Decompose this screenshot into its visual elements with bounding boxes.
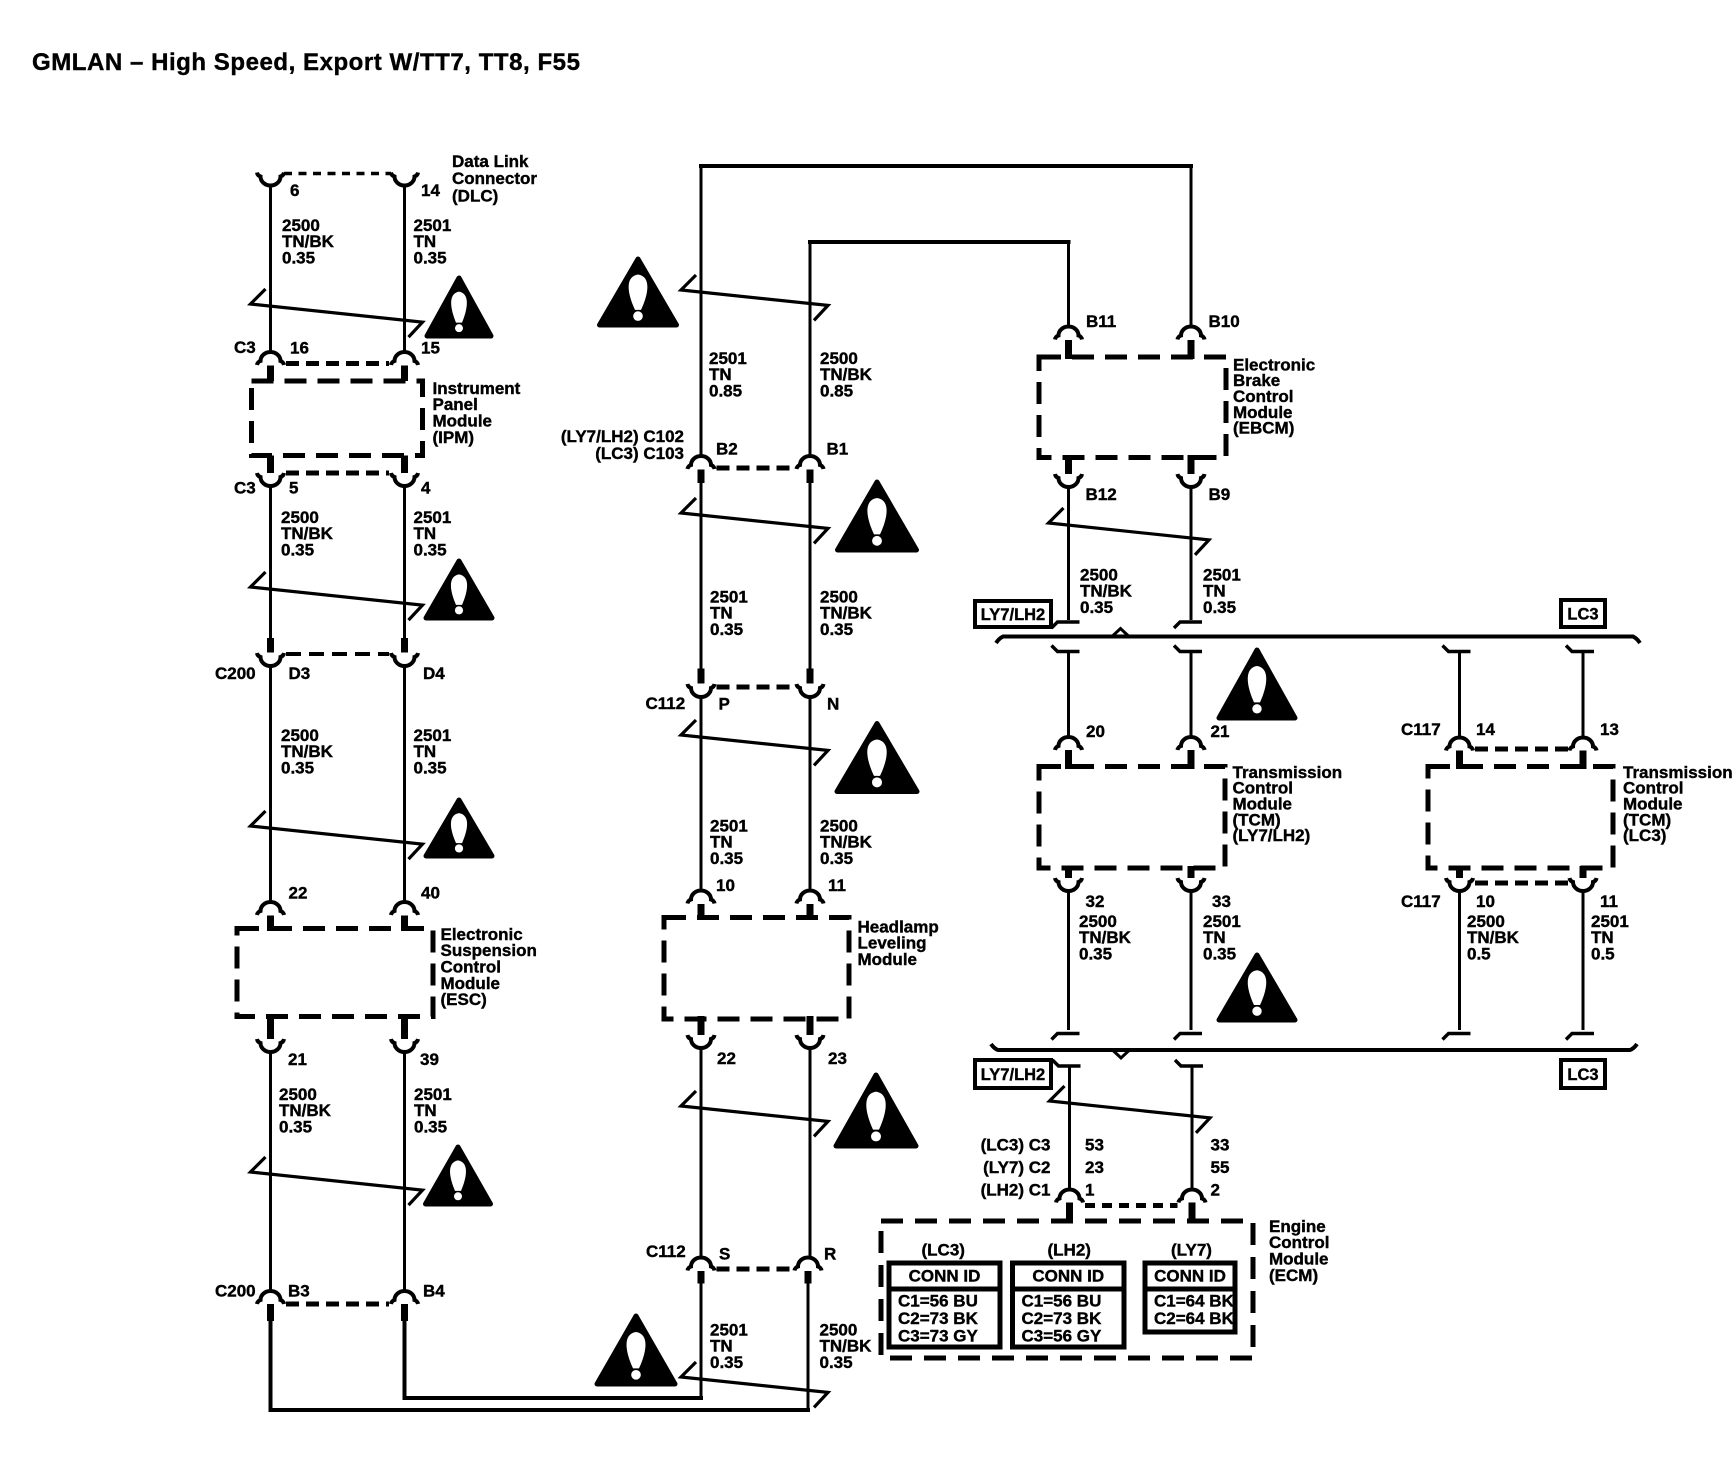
pin stub C112 S [698, 1271, 705, 1284]
pin stub C117-14 [1456, 751, 1463, 770]
module box Headlamp Leveling Module [664, 918, 849, 1020]
pin stub TCM-LC3 pin 11 [1580, 866, 1587, 878]
wire segment bus to TCM pin 21 [1190, 653, 1193, 738]
pin stub C117-13 [1580, 751, 1587, 770]
bus bracket 2 line [991, 1044, 1637, 1050]
connector TCM pin 21 terminal [1178, 737, 1205, 750]
svg-text:11: 11 [1600, 892, 1618, 911]
wire 2501 TN segment B9 to bus [1190, 486, 1193, 620]
warning triangle note 5 [600, 259, 677, 325]
twisted pair symbol bus2 to ECM [1050, 1086, 1211, 1133]
connector ECM pin 2 terminal [1179, 1190, 1206, 1203]
module box Transmission Control Module (TCM) (LC3) [1428, 767, 1613, 869]
wire segment TCM-32 to bus2 [1067, 890, 1070, 1030]
wire 2500 TN/BK top horizontal run to EBCM B11 [808, 240, 1071, 244]
pin stub C3-15 into IPM [401, 366, 408, 382]
svg-text:13: 13 [1600, 720, 1619, 739]
table CONN ID (LY7) [1145, 1263, 1235, 1332]
twisted pair symbol IPM to C200 [251, 572, 423, 620]
wire 2500 TN/BK top vertical at x810 [809, 240, 812, 457]
connector C102/C103 pin B1 terminal [797, 456, 824, 469]
connector C200 body dashed line [286, 652, 389, 656]
svg-text:LC3: LC3 [1567, 1066, 1598, 1084]
svg-text:R: R [824, 1244, 836, 1263]
connector C3 lower body dashed line [286, 471, 389, 476]
svg-text:16: 16 [290, 338, 309, 357]
svg-text:D4: D4 [423, 664, 445, 683]
pin stub ESC pin 39 [401, 1014, 408, 1039]
connector C200 lower body dashed line [286, 1302, 389, 1307]
warning triangle note 1 [427, 278, 491, 336]
module box Engine Control Module (ECM) [881, 1221, 1253, 1358]
svg-text:C1=56 BU: C1=56 BU [1022, 1292, 1102, 1311]
wire segment bus to C117 pin 14 [1458, 653, 1461, 739]
connector EBCM pin B11 terminal [1055, 327, 1082, 340]
pin stub EBCM-B11 [1065, 340, 1072, 359]
connector C112 lower body dashed line [717, 1267, 794, 1272]
connector ECM pin 1 terminal [1056, 1190, 1083, 1203]
connector C117 upper body dashed line [1475, 747, 1569, 752]
wire start hook TCM-21 below bus [1174, 646, 1202, 652]
connector C3 pin 4 terminal [391, 473, 418, 486]
wire 2500 TN/BK rise to C112 R [807, 1284, 810, 1411]
svg-text:20: 20 [1086, 722, 1105, 741]
svg-text:LC3: LC3 [1567, 606, 1598, 624]
wire 2501 TN segment ESC to C200 B4 [403, 1051, 406, 1292]
table CONN ID (LH2) [1013, 1263, 1125, 1347]
twisted pair symbol middle top [681, 275, 828, 320]
wire 2500 TN/BK segment IPM to C200 D3 [269, 485, 272, 639]
wire start hook C117-14 below bus [1443, 646, 1471, 652]
pin stub HLM-10 [698, 904, 705, 920]
svg-text:C3: C3 [234, 338, 256, 357]
connector HLM pin 23 terminal [797, 1035, 824, 1048]
connector C200 pin B4 terminal [391, 1291, 418, 1304]
svg-text:32: 32 [1086, 892, 1105, 911]
pin stub TCM-20 [1065, 750, 1072, 769]
connector C112 pin S terminal [688, 1258, 715, 1271]
pin stub TCM-LC3 pin 10 [1456, 866, 1463, 878]
connector TCM pin 20 terminal [1055, 737, 1082, 750]
pin stub IPM pin 5 [267, 456, 274, 474]
svg-text:CONN ID: CONN ID [909, 1267, 981, 1286]
table CONN ID (LC3) [889, 1263, 1000, 1347]
connector EBCM pin B10 terminal [1178, 327, 1205, 340]
wire end hook B12 at bus [1052, 622, 1080, 628]
svg-text:CONN ID: CONN ID [1154, 1267, 1226, 1286]
wire 2501 TN segment DLC pin 14 to C3 pin 15 [403, 184, 406, 353]
pin stub C112 P male [698, 669, 705, 684]
connector C102/C103 body dashed line [717, 466, 796, 471]
svg-text:P: P [719, 694, 730, 713]
svg-text:(LC3): (LC3) [922, 1240, 965, 1259]
pin stub B2 [698, 470, 705, 484]
svg-text:40: 40 [421, 883, 440, 902]
wire 2500 TN/BK segment C112 to HLM pin 11 [809, 697, 812, 893]
connector C3 pin 16 terminal [257, 352, 284, 365]
twisted pair symbol B2/B1 to C112 [681, 498, 828, 543]
connector C112 pin N terminal [797, 684, 824, 697]
svg-text:B4: B4 [423, 1281, 445, 1300]
pin stub EBCM pin B9 [1188, 455, 1195, 474]
pin stub C112 N male [807, 669, 814, 684]
svg-text:6: 6 [290, 181, 299, 200]
twisted pair symbol C112 to HLM [681, 720, 828, 765]
bus bracket 1 caret [1112, 629, 1129, 637]
wire 2501 TN vertical segment B4 down [403, 1321, 407, 1398]
pin stub HLM pin 22 [698, 1016, 705, 1035]
svg-text:C117: C117 [1401, 892, 1441, 911]
svg-text:10: 10 [1476, 892, 1495, 911]
connector DLC body dashed line [284, 172, 391, 176]
connector EBCM pin B12 terminal [1055, 474, 1082, 487]
connector C200 pin D3 terminal [257, 653, 284, 666]
connector HLM pin 11 terminal [797, 891, 824, 904]
warning triangle note 11 [1219, 955, 1295, 1020]
svg-text:(LY7): (LY7) [1171, 1240, 1212, 1259]
connector C112 pin R terminal [795, 1258, 822, 1271]
pin stub C200 B4 [401, 1304, 408, 1321]
wire 2501 TN segment IPM to C200 D4 [403, 485, 406, 639]
connector C112 pin P terminal [688, 684, 715, 697]
warning triangle note 2 [426, 561, 492, 618]
svg-text:C1=56 BU: C1=56 BU [898, 1292, 978, 1311]
svg-text:N: N [827, 694, 839, 713]
wire 2501 TN rise to C112 S [700, 1284, 703, 1399]
module box Instrument Panel Module (IPM) [252, 381, 423, 456]
pin stub ESC-22 [267, 916, 274, 932]
pin stub ESC-40 [401, 916, 408, 932]
module box Electronic Brake Control Module (EBCM) [1039, 357, 1226, 458]
pin stub HLM pin 23 [807, 1016, 814, 1035]
connector C3 pin 15 terminal [391, 352, 418, 365]
warning triangle note 4 [426, 1147, 491, 1204]
connector TCM pin 32 terminal [1055, 878, 1082, 891]
wire 2501 TN top vertical at x701 [700, 164, 703, 457]
svg-text:B9: B9 [1209, 485, 1231, 504]
svg-text:C3=56 GY: C3=56 GY [1022, 1327, 1103, 1346]
wire 2500 TN/BK drop to EBCM B11 [1067, 242, 1070, 328]
connector C117 pin 13 terminal [1570, 738, 1597, 751]
wire 2500 TN/BK segment C200 to ESC pin 22 [269, 665, 272, 904]
connector C3 body dashed line [286, 361, 389, 366]
pin stub ECM-1 [1066, 1203, 1073, 1224]
wire 2501 TN segment HLM to C112 S [700, 1047, 703, 1259]
wire 2501 TN bottom horizontal run to C112 S [403, 1396, 704, 1400]
svg-text:B11: B11 [1086, 312, 1116, 331]
svg-text:CONN ID: CONN ID [1032, 1267, 1104, 1286]
svg-text:(LC3) C3(LY7) C2(LH2) C1: (LC3) C3(LY7) C2(LH2) C1 [981, 1135, 1051, 1199]
connector TCM pin 33 terminal [1178, 878, 1205, 891]
twisted pair symbol C200 to ESC [251, 811, 423, 859]
svg-text:GMLAN – High Speed, Export W/T: GMLAN – High Speed, Export W/TT7, TT8, F… [32, 49, 580, 76]
svg-text:11: 11 [828, 876, 846, 895]
connector C112 body dashed line [717, 685, 796, 690]
wire segment TCM-33 to bus2 [1190, 890, 1193, 1030]
twisted pair symbol ESC to C200 [251, 1157, 423, 1205]
warning triangle note 6 [838, 482, 917, 550]
module box Electronic Suspension Control Module (ESC) [237, 929, 433, 1017]
pin stub ECM-2 [1189, 1203, 1196, 1224]
wire start hook TCM-20 below bus [1052, 646, 1080, 652]
connector C3 pin 5 terminal [257, 473, 284, 486]
wire segment bus to C117 pin 13 [1582, 653, 1585, 739]
net tag LC3 lower [1561, 1060, 1605, 1088]
svg-text:LY7/LH2: LY7/LH2 [981, 606, 1046, 624]
wire 2500 TN/BK bottom horizontal run to C112 R [269, 1408, 811, 1412]
wire 2501 TN segment C112 to HLM pin 10 [700, 697, 703, 893]
module box Transmission Control Module (TCM) (LY7/LH2) [1039, 767, 1225, 869]
svg-text:C117: C117 [1401, 720, 1441, 739]
wire 2501 TN segment B2 to C112 P [700, 483, 703, 669]
twisted pair symbol EBCM to bus [1049, 508, 1210, 555]
svg-text:B2: B2 [716, 439, 738, 458]
connector ESC pin 40 terminal [391, 902, 418, 915]
connector DLC pin 14 terminal [391, 173, 418, 186]
twisted pair symbol bottom run [681, 1362, 828, 1407]
connector C117 pin 10 terminal [1446, 878, 1473, 891]
wire 2501 TN top horizontal run to EBCM B10 [699, 164, 1193, 168]
connector C117 pin 11 terminal [1570, 878, 1597, 891]
wire 2500 TN/BK segment ESC to C200 B3 [269, 1051, 272, 1292]
svg-text:C1=64 BK: C1=64 BK [1154, 1292, 1235, 1311]
pin stub EBCM pin B12 [1065, 455, 1072, 474]
pin stub C3-16 into IPM [267, 366, 274, 382]
svg-text:B1: B1 [827, 439, 849, 458]
svg-text:C200: C200 [215, 1281, 256, 1300]
wire 2501 TN drop to EBCM B10 [1190, 166, 1193, 328]
connector C200 pin B3 terminal [257, 1291, 284, 1304]
wire segment C117-11 to bus2 [1582, 890, 1585, 1030]
svg-text:10: 10 [716, 876, 735, 895]
pin stub C112 R [805, 1271, 812, 1284]
wire 2500 TN/BK vertical segment B3 down [269, 1321, 273, 1410]
connector ESC pin 39 terminal [391, 1039, 418, 1052]
net tag LY7/LH2 upper [975, 601, 1051, 627]
svg-text:15: 15 [421, 338, 440, 357]
warning triangle note 8 [836, 1075, 916, 1146]
svg-text:D3: D3 [289, 664, 311, 683]
connector C117 pin 14 terminal [1446, 738, 1473, 751]
pin stub TCM pin 32 [1065, 866, 1072, 878]
wire start hook ECM left below bus2 [1053, 1060, 1081, 1066]
connector C102/C103 pin B2 terminal [688, 456, 715, 469]
wire 2500 TN/BK segment B12 to bus [1067, 486, 1070, 620]
wire segment bus to TCM pin 20 [1067, 653, 1070, 738]
wire end hook TCM-33 at bus2 [1174, 1034, 1202, 1040]
warning triangle note 10 [1219, 650, 1295, 718]
svg-text:C3=73 GY: C3=73 GY [898, 1327, 979, 1346]
svg-text:B3: B3 [288, 1281, 310, 1300]
svg-text:14: 14 [421, 181, 440, 200]
connector DLC pin 6 terminal [257, 173, 284, 186]
svg-text:C2=64 BK: C2=64 BK [1154, 1309, 1235, 1328]
svg-text:21: 21 [288, 1050, 307, 1069]
wire segment bus2 to ECM pin right [1191, 1068, 1194, 1191]
svg-text:14: 14 [1476, 720, 1495, 739]
svg-text:4: 4 [421, 478, 431, 497]
warning triangle note 7 [837, 724, 917, 792]
svg-text:B10: B10 [1209, 312, 1240, 331]
twisted pair symbol HLM to C112 [681, 1091, 828, 1136]
svg-text:C200: C200 [215, 664, 256, 683]
wire segment C117-10 to bus2 [1458, 890, 1461, 1030]
svg-text:5: 5 [289, 478, 298, 497]
svg-text:C2=73 BK: C2=73 BK [898, 1309, 979, 1328]
pin stub B1 [807, 470, 814, 484]
connector ESC pin 22 terminal [257, 902, 284, 915]
svg-text:33: 33 [1212, 892, 1231, 911]
pin stub C200 B3 [267, 1304, 274, 1321]
wire start hook ECM right below bus2 [1175, 1060, 1203, 1066]
wire end hook B9 at bus [1174, 622, 1202, 628]
connector EBCM pin B9 terminal [1178, 474, 1205, 487]
connector HLM pin 10 terminal [688, 891, 715, 904]
connector C117 lower body dashed line [1475, 881, 1569, 886]
wire start hook C117-13 below bus [1566, 646, 1594, 652]
connector C200 pin D4 terminal [391, 653, 418, 666]
twisted pair symbol DLC to IPM [251, 289, 423, 337]
pin stub ESC pin 21 [267, 1014, 274, 1039]
svg-text:(LH2): (LH2) [1048, 1240, 1091, 1259]
wire end hook TCM-32 at bus2 [1052, 1034, 1080, 1040]
pin stub C200 D4 male [401, 638, 408, 653]
wire end hook C117-10 at bus2 [1443, 1034, 1471, 1040]
pin stub TCM pin 33 [1188, 866, 1195, 878]
svg-text:B12: B12 [1086, 485, 1117, 504]
pin stub EBCM-B10 [1188, 340, 1195, 359]
wire 2500 TN/BK segment HLM to C112 R [809, 1047, 812, 1259]
svg-text:C112: C112 [646, 1242, 686, 1261]
connector ESC pin 21 terminal [257, 1039, 284, 1052]
svg-text:21: 21 [1211, 722, 1230, 741]
wire 2500 TN/BK segment B1 to C112 N [809, 483, 812, 669]
bus bracket 1 line [996, 637, 1640, 644]
bus bracket 2 caret [1113, 1050, 1130, 1058]
pin stub C200 D3 male [267, 638, 274, 653]
warning triangle note 9 [597, 1316, 675, 1384]
svg-text:23: 23 [828, 1049, 847, 1068]
wire 2500 TN/BK segment DLC pin 6 to C3 pin 16 [269, 184, 272, 353]
pin stub HLM-11 [807, 904, 814, 920]
warning triangle note 3 [426, 800, 492, 856]
wire end hook C117-11 at bus2 [1566, 1034, 1594, 1040]
svg-text:39: 39 [420, 1050, 439, 1069]
svg-text:C2=73 BK: C2=73 BK [1022, 1309, 1103, 1328]
pin stub IPM pin 4 [401, 456, 408, 474]
pin stub TCM-21 [1188, 750, 1195, 769]
svg-text:22: 22 [289, 883, 308, 902]
svg-text:C3: C3 [234, 478, 256, 497]
connector ECM body dashed line [1085, 1203, 1178, 1208]
svg-text:22: 22 [717, 1049, 736, 1068]
net tag LC3 upper [1561, 600, 1605, 627]
svg-text:LY7/LH2: LY7/LH2 [981, 1066, 1046, 1084]
connector HLM pin 22 terminal [688, 1035, 715, 1048]
wire 2501 TN segment C200 to ESC pin 40 [403, 665, 406, 904]
wire segment bus2 to ECM pin left [1068, 1068, 1071, 1191]
svg-text:S: S [719, 1244, 730, 1263]
net tag LY7/LH2 lower [975, 1060, 1051, 1088]
svg-text:C112: C112 [646, 694, 686, 713]
